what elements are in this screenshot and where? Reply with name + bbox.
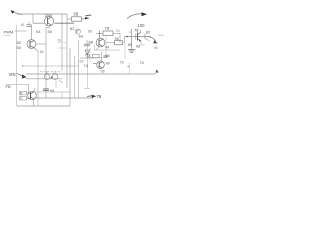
svg-text:68: 68 xyxy=(89,40,94,45)
svg-text:96: 96 xyxy=(136,45,140,49)
svg-text:56: 56 xyxy=(48,29,53,34)
svg-text:62: 62 xyxy=(70,26,75,31)
svg-text:74: 74 xyxy=(84,63,89,68)
svg-text:76: 76 xyxy=(97,94,102,99)
svg-text:94: 94 xyxy=(50,89,54,93)
svg-text:64: 64 xyxy=(79,34,84,39)
svg-text:54: 54 xyxy=(36,29,41,34)
svg-text:92: 92 xyxy=(101,70,105,74)
svg-text:80: 80 xyxy=(128,43,132,47)
svg-text:PWM: PWM xyxy=(4,30,14,35)
svg-text:VIN: VIN xyxy=(9,72,16,77)
svg-text:72: 72 xyxy=(120,61,124,65)
svg-text:88: 88 xyxy=(104,55,108,59)
svg-text:74: 74 xyxy=(140,61,144,65)
svg-text:78: 78 xyxy=(134,28,139,33)
svg-text:58: 58 xyxy=(58,39,62,43)
svg-text:48: 48 xyxy=(21,23,25,27)
svg-text:94: 94 xyxy=(105,46,109,50)
svg-text:84: 84 xyxy=(116,29,120,33)
svg-text:70: 70 xyxy=(105,26,110,31)
svg-text:FB: FB xyxy=(6,84,11,89)
svg-text:96: 96 xyxy=(115,37,119,41)
svg-text:100: 100 xyxy=(138,23,146,28)
svg-text:90: 90 xyxy=(106,62,110,66)
svg-text:156: 156 xyxy=(45,13,53,18)
svg-text:46: 46 xyxy=(40,50,44,54)
svg-text:82: 82 xyxy=(146,30,150,34)
svg-text:66: 66 xyxy=(88,29,92,33)
svg-text:98: 98 xyxy=(154,46,158,50)
svg-text:86: 86 xyxy=(87,55,91,59)
svg-text:58: 58 xyxy=(74,12,79,17)
svg-text:50: 50 xyxy=(17,45,22,50)
